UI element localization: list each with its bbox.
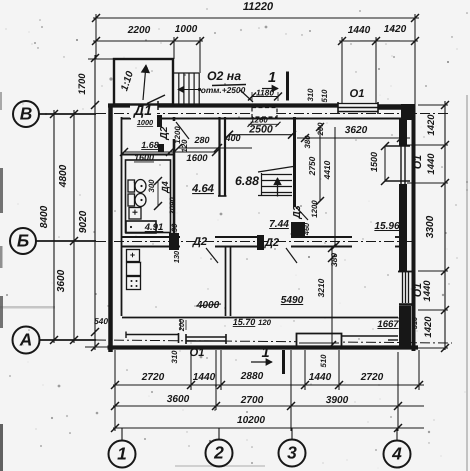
svg-text:310: 310 <box>306 88 315 102</box>
svg-text:4.64: 4.64 <box>191 183 215 195</box>
svg-text:1440: 1440 <box>348 25 371 36</box>
svg-text:1: 1 <box>261 345 269 361</box>
svg-text:380: 380 <box>329 253 339 267</box>
svg-text:1440: 1440 <box>309 372 332 383</box>
svg-text:2200: 2200 <box>127 25 151 36</box>
svg-text:2700: 2700 <box>240 395 264 406</box>
svg-text:1000: 1000 <box>175 24 198 35</box>
svg-text:1440: 1440 <box>426 153 437 175</box>
svg-text:4: 4 <box>391 444 402 464</box>
svg-text:460: 460 <box>302 223 311 236</box>
svg-text:1667: 1667 <box>377 319 399 330</box>
svg-text:2880: 2880 <box>240 371 264 382</box>
svg-text:1420: 1420 <box>426 114 437 136</box>
svg-text:1600: 1600 <box>186 153 208 164</box>
svg-text:3900: 3900 <box>326 395 349 406</box>
svg-text:1700: 1700 <box>77 73 88 95</box>
svg-text:О2 на: О2 на <box>207 69 241 83</box>
svg-text:380: 380 <box>303 135 312 149</box>
svg-text:2720: 2720 <box>141 372 165 383</box>
svg-text:3210: 3210 <box>316 278 326 297</box>
svg-text:О1: О1 <box>412 283 424 297</box>
svg-text:1500: 1500 <box>369 152 379 172</box>
svg-text:Д2: Д2 <box>264 237 280 249</box>
svg-text:В: В <box>20 104 33 124</box>
svg-text:4.91: 4.91 <box>144 222 164 233</box>
svg-text:О1: О1 <box>412 155 424 169</box>
svg-text:200: 200 <box>177 319 186 332</box>
svg-text:2500: 2500 <box>248 124 273 136</box>
svg-text:310: 310 <box>170 350 179 364</box>
svg-text:120: 120 <box>258 318 272 327</box>
svg-text:А: А <box>19 330 33 350</box>
svg-text:1: 1 <box>117 444 127 464</box>
svg-text:2720: 2720 <box>360 372 384 383</box>
svg-text:10200: 10200 <box>237 415 265 426</box>
svg-text:540: 540 <box>94 316 108 326</box>
svg-text:3600: 3600 <box>167 394 190 405</box>
svg-text:1440: 1440 <box>193 372 216 383</box>
svg-text:1600: 1600 <box>134 153 154 163</box>
svg-text:15.70: 15.70 <box>233 317 256 327</box>
svg-text:+: + <box>132 208 138 219</box>
svg-text:3090: 3090 <box>168 197 177 215</box>
svg-text:Д3: Д3 <box>292 205 303 219</box>
svg-text:15.96: 15.96 <box>374 221 400 232</box>
svg-text:510: 510 <box>320 89 329 103</box>
svg-text:1:10: 1:10 <box>119 70 136 93</box>
svg-text:1200: 1200 <box>173 126 182 144</box>
svg-text:300: 300 <box>147 179 156 193</box>
svg-text:130: 130 <box>172 251 181 263</box>
svg-text:8400: 8400 <box>39 205 50 228</box>
svg-text:1.68: 1.68 <box>141 140 159 150</box>
svg-text:5490: 5490 <box>281 295 304 306</box>
svg-text:11220: 11220 <box>243 1 274 13</box>
svg-text:Б: Б <box>17 231 29 251</box>
svg-text:Д2: Д2 <box>159 126 170 140</box>
svg-text:1: 1 <box>268 70 276 86</box>
svg-text:190: 190 <box>170 223 179 237</box>
svg-text:4410: 4410 <box>322 160 332 180</box>
svg-text:200: 200 <box>316 122 325 137</box>
svg-text:О1: О1 <box>350 88 365 100</box>
svg-text:Д2: Д2 <box>192 236 208 248</box>
svg-text:7.44: 7.44 <box>269 219 289 230</box>
svg-text:3: 3 <box>287 443 297 463</box>
svg-text:3300: 3300 <box>425 215 436 238</box>
svg-text:400: 400 <box>224 133 240 143</box>
svg-text:1180: 1180 <box>256 88 274 98</box>
svg-text:1420: 1420 <box>423 316 434 338</box>
svg-text:О1: О1 <box>190 347 205 359</box>
svg-text:280: 280 <box>193 135 209 145</box>
svg-text:510: 510 <box>410 317 419 329</box>
svg-text:3620: 3620 <box>345 125 368 136</box>
svg-text:4800: 4800 <box>58 164 69 188</box>
svg-text:1200: 1200 <box>310 200 319 218</box>
svg-text:1000: 1000 <box>137 118 153 127</box>
svg-text:3600: 3600 <box>56 269 67 292</box>
svg-text:6.88: 6.88 <box>235 174 259 188</box>
svg-text:Д4: Д4 <box>160 181 170 194</box>
svg-text:1420: 1420 <box>384 24 407 35</box>
svg-text:2: 2 <box>213 443 224 463</box>
svg-text:510: 510 <box>319 354 328 368</box>
svg-text:9020: 9020 <box>78 210 89 233</box>
svg-text:+: + <box>130 250 135 260</box>
svg-text:отм.+2500: отм.+2500 <box>201 85 246 95</box>
svg-text:2750: 2750 <box>307 156 317 176</box>
